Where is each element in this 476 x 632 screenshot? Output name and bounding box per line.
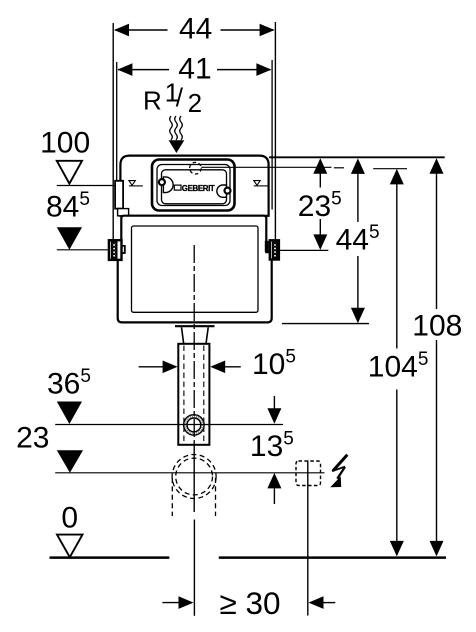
drain elbow dashed circles	[172, 455, 216, 499]
dimension 23.5	[313, 158, 327, 250]
dashed inlet circle	[190, 162, 202, 174]
level 36.5 line	[55, 424, 283, 426]
level 100 triangle	[57, 161, 82, 184]
geberit logo square	[174, 185, 181, 190]
level 23 line	[55, 472, 324, 474]
svg-text:44: 44	[179, 13, 212, 46]
44.5 bottom reference line	[282, 323, 369, 325]
svg-text:/: /	[176, 82, 184, 112]
flush pipe neck	[182, 327, 184, 344]
cistern tank outer	[118, 216, 272, 323]
dimension line 41	[117, 63, 271, 76]
flush pipe inner dashed walls	[183, 346, 185, 443]
level 84.5 triangle	[57, 227, 82, 250]
dimension 44.5	[351, 158, 365, 323]
right mounting bracket	[265, 240, 279, 259]
top reference line	[269, 156, 445, 158]
svg-text:100: 100	[40, 127, 90, 160]
extension line right for 44	[274, 22, 276, 241]
level 84.5 line right	[279, 249, 328, 251]
left water level mark	[129, 181, 143, 186]
dimension >=30	[162, 596, 335, 609]
svg-text:GEBERIT: GEBERIT	[182, 183, 216, 193]
level 84.5 line	[57, 249, 109, 251]
electrical conduit line	[307, 461, 309, 616]
dimension 108	[430, 158, 444, 556]
left mounting bracket	[109, 240, 125, 260]
dimension 104.5	[390, 169, 404, 557]
svg-text:108: 108	[412, 309, 462, 342]
access panel inner frame	[157, 165, 230, 206]
dimension line 44	[114, 24, 275, 37]
dimension 10.5	[139, 361, 241, 374]
right water level mark	[254, 181, 268, 186]
extension line left for 44	[112, 23, 114, 259]
svg-text:R: R	[143, 86, 162, 116]
svg-text:≥ 30: ≥ 30	[220, 585, 281, 621]
svg-text:2: 2	[188, 88, 202, 118]
cistern protection cover	[120, 156, 268, 216]
panel plate	[162, 170, 227, 204]
lightning bolt	[330, 455, 347, 487]
electrical dashed box	[296, 461, 321, 486]
svg-text:0: 0	[61, 501, 78, 534]
right screw	[225, 188, 231, 194]
left latch	[163, 177, 173, 193]
extension line right for 41	[271, 60, 273, 210]
dimension 13.5 upper arrow	[267, 396, 281, 424]
svg-text:23: 23	[16, 422, 49, 455]
level 36.5 triangle	[57, 402, 82, 425]
left screw	[159, 179, 165, 185]
centerline	[193, 245, 195, 444]
svg-text:41: 41	[178, 53, 211, 86]
level 0 triangle	[57, 535, 83, 558]
supply connection box	[115, 181, 123, 209]
floor line left	[50, 556, 170, 559]
dimension 13.5 lower arrow	[267, 473, 281, 504]
level 23 triangle	[57, 450, 83, 473]
floor line right	[219, 556, 446, 559]
wavy supply arrow	[170, 116, 183, 140]
connection box lower tab	[118, 209, 129, 216]
level 100 line	[57, 185, 116, 187]
extension line left for 41	[116, 62, 118, 181]
flush bend ring	[184, 415, 204, 435]
flush pipe body	[178, 344, 209, 445]
cistern tank inner	[132, 226, 259, 312]
leader line from inlet	[201, 166, 331, 168]
drain dashed sides	[171, 478, 173, 516]
access panel outer frame	[152, 160, 235, 211]
flush pipe socket flange	[175, 325, 215, 327]
right latch	[217, 185, 227, 197]
